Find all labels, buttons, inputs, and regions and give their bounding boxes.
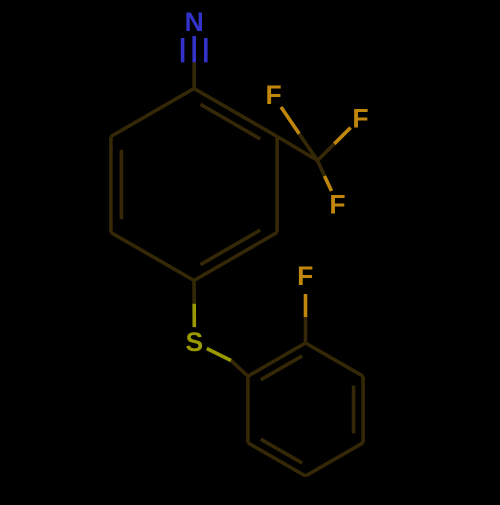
- bond C8-F3 carbon half: [318, 161, 325, 177]
- bond C4-S carbon half: [192, 281, 196, 304]
- bond F4-C2' carbon half: [304, 317, 308, 343]
- ring2 bond C1'-C2': [248, 343, 306, 376]
- ring2 bond C6'-C1': [246, 376, 250, 443]
- bond S-C1' carbon half: [231, 361, 248, 377]
- ring1 bond C5-C6: [109, 137, 113, 233]
- ring1 aromatic inner line C3=C4: [200, 230, 260, 265]
- nitrile triple bond N#C (blue N half, right line): [204, 38, 208, 62]
- svg-text:F: F: [329, 190, 345, 220]
- bond C8-F2 carbon half: [318, 144, 335, 161]
- ring2 bond C3'-C4': [361, 376, 365, 443]
- nitrile bond carbon half, C7 to ring C1: [192, 62, 196, 88]
- ring2 aromatic inner line C5'=C6': [261, 439, 303, 463]
- ring2 aromatic inner line C1'=C2': [261, 356, 303, 380]
- bond C8-F3 fluorine half: [325, 176, 332, 191]
- ring1 bond C1-C2: [194, 89, 277, 137]
- ring1 bond C6-C1: [111, 89, 194, 137]
- svg-text:F: F: [297, 261, 313, 291]
- bond F4-C2' fluorine half: [304, 294, 308, 317]
- bond C4-S sulfur half: [192, 304, 196, 327]
- ring1 bond C4-C5: [111, 233, 194, 281]
- ring2 bond C2'-C3': [306, 343, 364, 376]
- svg-text:N: N: [185, 7, 204, 37]
- nitrile triple bond N#C (blue N half, left line): [181, 38, 185, 62]
- svg-text:F: F: [352, 103, 368, 133]
- bond C8-F2 fluorine half: [334, 128, 350, 144]
- bond C8-F1 fluorine half: [281, 107, 299, 134]
- ring1 bond C2-C3: [275, 137, 279, 233]
- bond S-C1' sulfur half: [207, 349, 231, 361]
- bond C8-F1 carbon half: [299, 134, 317, 161]
- ring1 bond C3-C4: [194, 233, 277, 281]
- ring2 bond C5'-C6': [248, 443, 306, 476]
- svg-text:F: F: [266, 80, 282, 110]
- ring2 aromatic inner line C3'=C4': [352, 386, 356, 434]
- nitrile triple bond N#C (blue N half, middle line): [192, 36, 196, 62]
- svg-text:S: S: [186, 327, 204, 357]
- ring1 aromatic inner line C1=C2: [200, 104, 260, 139]
- bond C2 to CF3 carbon C8: [277, 137, 317, 161]
- ring1 aromatic inner line C5=C6: [120, 150, 124, 219]
- ring2 bond C4'-C5': [306, 443, 364, 476]
